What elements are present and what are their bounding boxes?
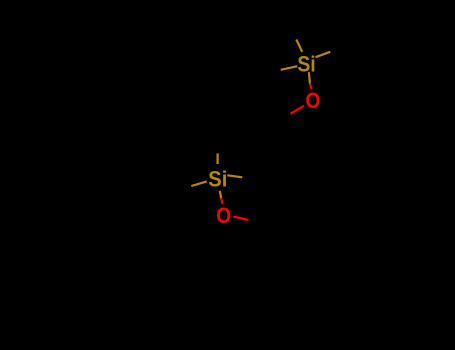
svg-text:Si: Si bbox=[208, 167, 227, 192]
bond Si1-CH3 up-left (Si half) bbox=[296, 40, 302, 52]
bond Si2-O2 (Si half) bbox=[220, 191, 221, 199]
bond Si2-O2 (O half) bbox=[221, 198, 222, 204]
bond Si1-O1 (Si half) bbox=[309, 72, 310, 83]
bond Si1-O1 (O half) bbox=[310, 84, 312, 90]
bond Si2-CH3 right (Si half) bbox=[227, 175, 242, 177]
atom label O1 bbox=[306, 88, 321, 113]
bond O2-C right (O half) bbox=[233, 217, 248, 220]
svg-text:Si: Si bbox=[297, 52, 315, 77]
svg-text:O: O bbox=[306, 88, 321, 113]
bond Si2-C left (Si half) bbox=[191, 181, 207, 186]
atom label O2 bbox=[216, 203, 231, 228]
svg-text:O: O bbox=[216, 203, 231, 228]
atom label Si2 bbox=[208, 167, 227, 192]
bond Si1-CH3 left (Si half) bbox=[281, 66, 298, 70]
bond Si2-CH3 up (Si half) bbox=[217, 153, 219, 164]
atom label Si1 bbox=[297, 52, 315, 77]
bond Si1-CH3 up-right (Si half) bbox=[316, 52, 331, 57]
bond O1-C (O half) bbox=[291, 106, 305, 114]
